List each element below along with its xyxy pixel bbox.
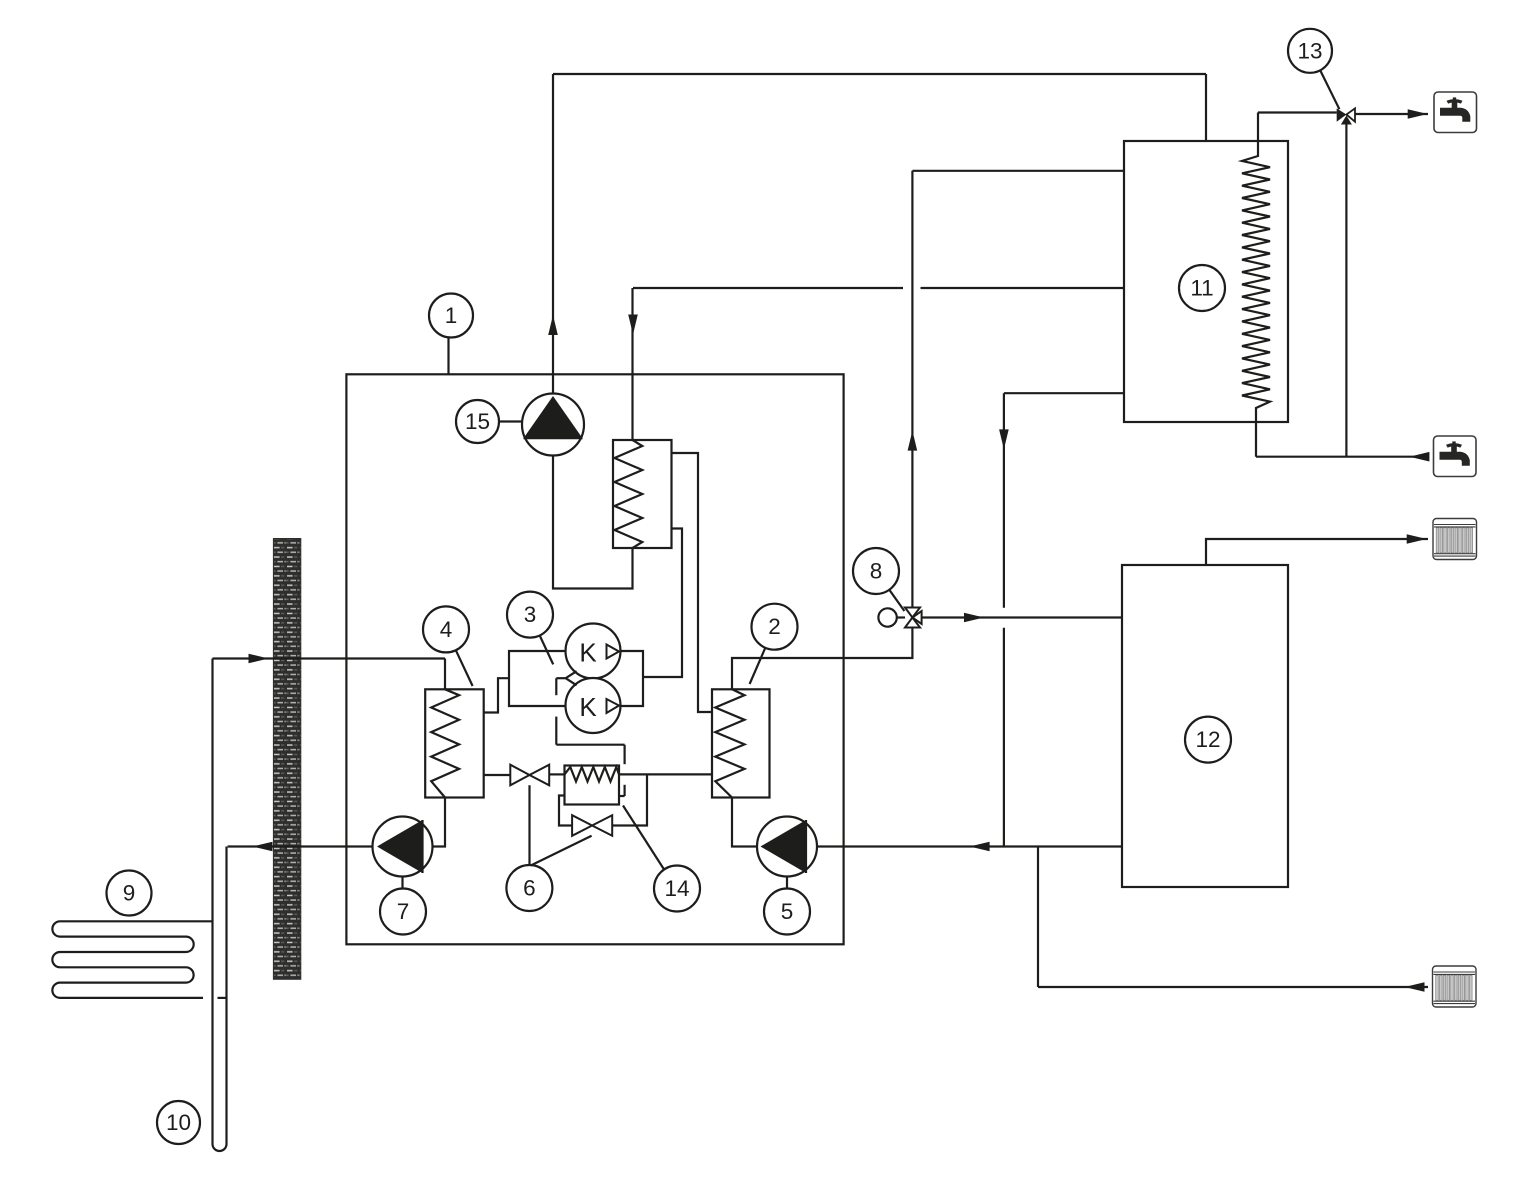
wire condenser to pump 5 xyxy=(732,798,757,847)
cold water tap icon xyxy=(1434,436,1477,477)
hot water tap icon xyxy=(1434,92,1477,133)
wire economizer branch down xyxy=(612,774,647,825)
svg-text:9: 9 xyxy=(123,881,136,906)
wire radiator supply xyxy=(1206,539,1428,565)
label 12 xyxy=(1185,717,1231,763)
buffer tank 12 (vessel) xyxy=(1122,565,1288,887)
wire cold water feed xyxy=(1256,125,1428,457)
label 1 xyxy=(429,294,473,375)
wire evaporator to pump 7 xyxy=(433,798,446,847)
circulation pump 5 (heating) xyxy=(757,817,817,877)
wire suction evaporator to compressor xyxy=(484,678,509,712)
svg-text:5: 5 xyxy=(781,899,794,924)
wire pump 15 up to DHW tank (top run) xyxy=(553,74,1206,394)
wire expansion valve 6a to evaporator xyxy=(484,774,510,776)
compressor assembly 3 (suction box) xyxy=(509,651,566,706)
wire tank 11 return (gap at crossing) xyxy=(1004,393,1124,846)
expansion valve 6b (economizer) xyxy=(572,815,612,836)
arrow radiator return xyxy=(1405,982,1425,992)
heat pump unit 1 (enclosure) xyxy=(346,374,843,944)
ground collector loop 9 (serpentine) xyxy=(52,921,226,998)
label 10 xyxy=(157,1101,200,1144)
circulation pump 15 (DHW loading) xyxy=(522,394,584,456)
arrow tank 11 return down xyxy=(999,429,1009,449)
economizer injection port (diamond) xyxy=(556,671,576,685)
wire subcooler to expansion valve 6a xyxy=(549,773,564,775)
label 8 xyxy=(853,548,904,611)
wire valve 6b to subcooler lower pass xyxy=(559,796,572,826)
svg-text:6: 6 xyxy=(523,876,536,901)
label 5 xyxy=(764,877,810,935)
compressor lower K xyxy=(566,678,621,733)
radiator icon (return) xyxy=(1433,966,1477,1007)
arrow DHW flow up xyxy=(548,315,558,335)
wire hot water out xyxy=(1258,113,1428,115)
svg-text:1: 1 xyxy=(445,303,458,328)
arrow cold water in xyxy=(1409,452,1429,462)
svg-text:K: K xyxy=(579,638,597,668)
desuperheater heat exchanger xyxy=(613,440,672,548)
borehole U-tube 10 xyxy=(213,659,227,1152)
svg-text:4: 4 xyxy=(440,617,453,642)
arrow to buffer tank right xyxy=(964,613,984,623)
label 6 xyxy=(506,785,591,911)
subcooler / economizer heat exchanger 14 xyxy=(565,766,620,805)
DHW tank 11 (vessel) xyxy=(1124,141,1288,422)
wire brine supply (to evaporator HX4) xyxy=(213,659,446,690)
arrow DHW return down xyxy=(628,315,638,335)
evaporator heat exchanger 4 xyxy=(425,689,484,797)
compressor discharge box xyxy=(621,651,644,706)
wire DHW tank return to desuperheater (gap at crossing) xyxy=(633,288,1125,440)
wire condenser top to valve 8 xyxy=(732,628,912,690)
label 9 xyxy=(107,871,152,916)
arrow to DHW tank up xyxy=(908,431,918,451)
arrow heating return left xyxy=(970,842,990,852)
label 3 xyxy=(507,592,553,665)
circulation pump 7 (brine) xyxy=(373,817,433,877)
three-way valve 8 xyxy=(905,608,922,628)
valve 8 actuator xyxy=(878,608,905,626)
wire discharge compressor to desuperheater xyxy=(643,529,682,678)
expansion valve 6a xyxy=(510,765,549,786)
arrow brine return (out of unit) xyxy=(252,842,272,852)
arrow hot water to tap xyxy=(1408,109,1428,119)
compressor upper K xyxy=(566,624,621,679)
wire liquid line (condenser to subcooler 14) xyxy=(619,773,712,775)
svg-text:12: 12 xyxy=(1195,727,1220,752)
arrow brine supply (into unit) xyxy=(249,654,269,664)
wire economizer vapor to compressor injection xyxy=(556,678,624,796)
wire brine return (from pump 7) xyxy=(228,845,373,847)
label 7 xyxy=(380,877,426,935)
wall / ground barrier (hatched) xyxy=(273,539,300,980)
wire heating return main xyxy=(817,845,1122,847)
label 13 xyxy=(1288,29,1339,109)
label 14 xyxy=(623,806,700,912)
arrow radiator supply xyxy=(1407,534,1427,544)
svg-text:K: K xyxy=(579,692,597,722)
condenser heat exchanger 2 xyxy=(712,689,770,797)
DHW tank coil + connections xyxy=(1242,113,1270,457)
wire valve 8 to buffer tank 12 xyxy=(922,616,1122,618)
label 15 xyxy=(456,400,522,443)
svg-text:15: 15 xyxy=(465,409,490,434)
wire valve 8 to DHW tank 11 xyxy=(912,171,1124,608)
wire desuperheater water out to pump 15 xyxy=(553,456,633,589)
svg-text:13: 13 xyxy=(1297,38,1322,63)
svg-text:7: 7 xyxy=(397,899,410,924)
svg-text:10: 10 xyxy=(166,1110,191,1135)
label 11 xyxy=(1179,265,1225,311)
wire desuperheater to condenser xyxy=(672,453,713,712)
label 2 xyxy=(750,604,798,684)
wire radiator return xyxy=(1038,847,1428,988)
radiator icon (supply) xyxy=(1433,519,1477,560)
svg-text:8: 8 xyxy=(870,559,883,584)
svg-text:3: 3 xyxy=(524,602,537,627)
mixing valve 13 xyxy=(1337,108,1355,124)
svg-text:14: 14 xyxy=(664,876,689,901)
label 4 xyxy=(423,606,473,686)
svg-text:2: 2 xyxy=(768,614,781,639)
svg-text:11: 11 xyxy=(1190,276,1213,301)
